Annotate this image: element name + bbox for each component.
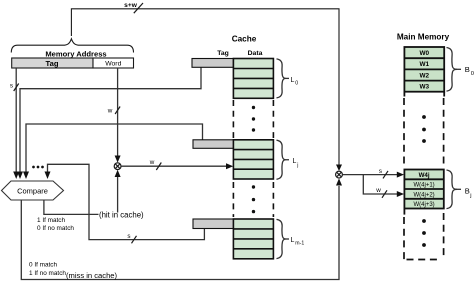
svg-text:w: w: [149, 159, 155, 166]
svg-text:0 If match: 0 If match: [29, 262, 58, 269]
svg-text:W(4j+3): W(4j+3): [414, 202, 435, 208]
svg-text:L: L: [291, 237, 295, 244]
svg-text:W4j: W4j: [419, 172, 430, 179]
svg-text:W1: W1: [420, 61, 430, 68]
svg-text:W0: W0: [420, 50, 430, 57]
svg-text:s+w: s+w: [124, 2, 138, 9]
svg-text:W(4j+2): W(4j+2): [414, 192, 435, 198]
svg-text:s: s: [10, 83, 13, 90]
svg-text:Compare: Compare: [17, 186, 48, 195]
svg-text:j: j: [296, 162, 298, 168]
svg-text:j: j: [469, 193, 471, 199]
svg-text:m-1: m-1: [295, 241, 304, 247]
svg-text:(miss in cache): (miss in cache): [66, 271, 118, 280]
svg-text:L: L: [293, 158, 297, 165]
svg-text:s: s: [379, 168, 382, 175]
svg-text:Word: Word: [105, 61, 121, 68]
svg-text:W2: W2: [420, 72, 430, 79]
svg-text:W3: W3: [420, 84, 430, 91]
svg-text:B: B: [465, 187, 470, 196]
svg-text:w: w: [107, 108, 113, 115]
svg-text:1 If no match: 1 If no match: [29, 270, 66, 277]
svg-text:Tag: Tag: [217, 50, 229, 57]
svg-text:L: L: [291, 77, 295, 84]
svg-text:0 If no match: 0 If no match: [37, 225, 74, 232]
svg-text:1 If match: 1 If match: [37, 217, 66, 224]
svg-text:w: w: [375, 187, 381, 194]
svg-text:Cache: Cache: [232, 35, 257, 44]
svg-text:Main Memory: Main Memory: [397, 33, 450, 42]
svg-text:Data: Data: [248, 50, 263, 57]
svg-text:W(4j+1): W(4j+1): [414, 183, 435, 189]
svg-text:B: B: [465, 65, 470, 74]
svg-text:Memory Address: Memory Address: [45, 50, 106, 59]
svg-text:s: s: [127, 233, 130, 240]
svg-text:0: 0: [295, 81, 298, 87]
svg-text:(hit in cache): (hit in cache): [99, 211, 144, 220]
svg-text:Tag: Tag: [46, 59, 59, 68]
